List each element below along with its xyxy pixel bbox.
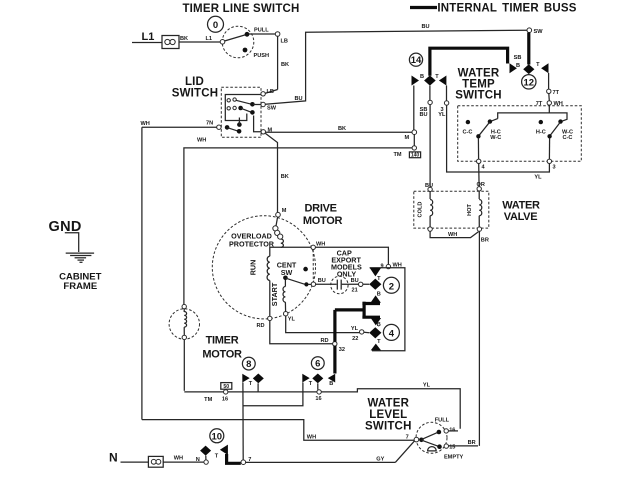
svg-text:EMPTY: EMPTY	[444, 455, 464, 461]
node N terminal	[204, 460, 208, 464]
water level EMPTY contact	[422, 440, 464, 460]
lid switch terminal M	[261, 128, 272, 135]
svg-text:INTERNAL TIMER BUSS: INTERNAL TIMER BUSS	[437, 3, 576, 15]
svg-text:N: N	[109, 451, 118, 465]
svg-text:MOTOR: MOTOR	[202, 349, 242, 361]
circled 8	[242, 357, 255, 370]
wire from 12 T down to 7T	[547, 73, 560, 96]
svg-text:MOTOR: MOTOR	[303, 215, 343, 227]
wire BU from lid SW up and right to timer buss	[265, 24, 527, 104]
circled 10	[210, 429, 224, 443]
svg-text:DRIVE: DRIVE	[305, 203, 337, 215]
svg-text:0: 0	[213, 20, 218, 31]
svg-text:SB: SB	[514, 55, 522, 61]
svg-text:W-C: W-C	[490, 135, 501, 141]
svg-text:10: 10	[212, 431, 223, 442]
label CABINET FRAME	[59, 271, 101, 292]
label CAP EXPORT MODELS ONLY	[331, 249, 362, 279]
svg-text:SWITCH: SWITCH	[455, 90, 502, 102]
svg-text:140: 140	[411, 153, 420, 159]
contact 8 diamond	[253, 374, 264, 392]
wire T6 to T8 rail	[243, 383, 303, 406]
svg-text:8: 8	[246, 359, 251, 370]
water level pivot node 7	[406, 435, 424, 443]
svg-text:BR: BR	[468, 440, 476, 446]
dashed wire WH export cap	[312, 250, 314, 282]
svg-text:7N: 7N	[206, 121, 213, 127]
svg-text:2: 2	[389, 281, 394, 292]
svg-text:4: 4	[482, 165, 486, 171]
water temp switch box	[458, 106, 582, 162]
wire from 14 T to 3 YL node	[438, 86, 449, 119]
water valve box	[414, 191, 489, 228]
overload protector	[229, 217, 283, 248]
temp switch left switch arm H-C W-C	[476, 119, 501, 140]
wire BK lid M to node M	[266, 126, 412, 132]
circled 6	[311, 357, 324, 370]
wire WH water valve bottom	[430, 231, 489, 243]
wire OR terminal 4 to water valve hot	[477, 164, 485, 192]
start winding	[270, 280, 286, 312]
svg-text:HOT: HOT	[467, 204, 473, 216]
svg-text:YL: YL	[351, 326, 359, 332]
contact 12 diamond	[523, 64, 534, 74]
svg-text:SW: SW	[267, 106, 277, 112]
title WATER TEMP SWITCH	[455, 68, 502, 102]
contact 6 B triangle	[328, 374, 335, 387]
svg-text:SW: SW	[534, 29, 544, 35]
drive motor M terminal	[276, 208, 287, 217]
timer line switch S0	[220, 26, 269, 59]
wire YL motor to terminal 22	[286, 316, 370, 342]
pressure dome	[428, 447, 437, 451]
svg-text:WH: WH	[174, 456, 183, 462]
svg-text:M: M	[405, 135, 410, 141]
svg-text:FULL: FULL	[435, 417, 450, 423]
bus wire TM 16 YL	[184, 383, 460, 431]
contact 2 diamond	[369, 279, 381, 290]
contact 6 diamond	[312, 374, 323, 390]
wire WH left rail down	[141, 127, 143, 419]
svg-text:TM: TM	[204, 397, 212, 403]
contact 2 T triangle	[370, 268, 381, 282]
wire heavy internal timer buss bend to contact 14	[430, 48, 508, 76]
svg-text:OR: OR	[477, 182, 485, 188]
wire WH lower rail to water level switch	[142, 420, 414, 441]
node SW on timer buss	[527, 28, 543, 35]
svg-text:T: T	[215, 454, 219, 460]
contact 12 T triangle	[536, 62, 548, 73]
wire BK lid M to drive motor	[265, 133, 288, 212]
contact 12 B triangle	[510, 55, 522, 73]
svg-text:WH: WH	[307, 434, 316, 440]
temp switch left contact C-C	[463, 120, 473, 135]
svg-text:6: 6	[315, 359, 320, 370]
svg-text:BK: BK	[281, 174, 289, 180]
svg-text:PULL: PULL	[254, 28, 269, 34]
ground GND	[49, 219, 95, 262]
svg-text:COLD: COLD	[418, 202, 424, 218]
title TIMER MOTOR	[202, 335, 242, 361]
wire heavy SW down to contact 12	[527, 33, 530, 65]
wire YL to temp switch common 3	[447, 105, 550, 180]
svg-text:RD: RD	[257, 323, 265, 329]
svg-text:SW: SW	[281, 268, 293, 277]
node RD motor	[257, 316, 272, 329]
wire T8 down to node 7	[242, 383, 244, 461]
wire TM to timer motor	[184, 148, 412, 305]
lid switch terminal LB	[261, 89, 274, 96]
svg-text:7: 7	[406, 435, 409, 441]
node YL motor	[284, 312, 296, 323]
wire PULL to LB	[249, 33, 275, 35]
wire BU down to water valve	[429, 105, 431, 188]
contact 4 T triangle	[371, 339, 381, 350]
svg-text:B: B	[377, 291, 381, 297]
svg-text:RD: RD	[320, 338, 328, 344]
svg-text:START: START	[270, 282, 279, 306]
temp switch right contact H-C	[536, 120, 546, 135]
svg-text:YL: YL	[438, 112, 446, 118]
circled 14	[409, 53, 422, 66]
water level switch shell	[416, 422, 447, 453]
svg-text:TIMER: TIMER	[206, 335, 239, 347]
svg-text:M: M	[282, 208, 287, 214]
svg-text:WH: WH	[197, 138, 206, 144]
wire BK down to lid switch LB	[265, 36, 289, 93]
svg-text:BK: BK	[281, 62, 289, 68]
wire WH from 7N to left rail	[141, 121, 217, 144]
timer motor TM	[169, 304, 199, 339]
wire from 14 B down to node M	[413, 86, 415, 131]
svg-text:T: T	[536, 62, 540, 68]
svg-text:L1: L1	[206, 36, 213, 42]
cent sw	[277, 261, 311, 287]
title DRIVE MOTOR	[303, 203, 343, 228]
heavy staircase B2 to B4	[362, 302, 380, 318]
capacitor C1	[311, 276, 369, 293]
drive motor shell	[212, 216, 315, 319]
svg-text:B: B	[329, 381, 333, 387]
lid switch terminal SW	[261, 102, 277, 111]
svg-text:WH: WH	[316, 242, 325, 248]
title WATER VALVE	[502, 200, 540, 224]
svg-text:WATER: WATER	[367, 397, 409, 409]
svg-text:VALVE: VALVE	[504, 211, 538, 223]
svg-text:T: T	[249, 381, 253, 387]
wire RD motor to node 32	[270, 321, 345, 353]
circled 2	[383, 277, 399, 293]
wire WH to contact 10	[163, 456, 204, 464]
svg-text:BU: BU	[425, 183, 433, 189]
svg-text:SWITCH: SWITCH	[365, 420, 412, 432]
svg-text:3: 3	[553, 164, 556, 170]
svg-text:LB: LB	[281, 39, 288, 45]
svg-text:PROTECTOR: PROTECTOR	[229, 239, 275, 248]
contact 14 T triangle	[435, 74, 446, 86]
drive motor terminal box	[270, 247, 389, 316]
lid switch internal wiring	[225, 95, 261, 134]
node 7T WH	[536, 94, 563, 108]
svg-text:YL: YL	[534, 175, 542, 181]
contact 10 diamond	[200, 446, 211, 460]
connector at N	[148, 456, 163, 467]
svg-text:B: B	[420, 74, 424, 80]
water valve cold solenoid	[418, 192, 433, 232]
svg-text:BK: BK	[338, 126, 346, 132]
node TM 16 boxed 50	[204, 383, 232, 403]
svg-text:L1: L1	[142, 31, 155, 43]
svg-text:WH: WH	[141, 121, 150, 127]
svg-text:TM: TM	[394, 152, 402, 158]
node 16 under 6	[315, 390, 321, 402]
heavy wire T10 to node 7	[227, 454, 241, 463]
svg-text:4: 4	[389, 328, 395, 339]
node WH on motor box	[311, 242, 325, 250]
heavy wire to node 32	[335, 310, 363, 374]
wire GY to water level switch	[246, 441, 415, 463]
svg-text:9: 9	[380, 264, 383, 270]
svg-text:12: 12	[524, 77, 535, 88]
svg-text:15: 15	[449, 444, 455, 450]
contact 4 diamond	[369, 327, 381, 338]
node M	[405, 130, 417, 141]
svg-text:LB: LB	[267, 89, 274, 95]
svg-text:BU: BU	[351, 278, 359, 284]
svg-text:22: 22	[352, 336, 358, 342]
node TM 140	[394, 135, 421, 159]
title WATER LEVEL SWITCH	[365, 397, 412, 432]
circled 4	[383, 324, 399, 340]
svg-text:YL: YL	[288, 317, 296, 323]
svg-text:B: B	[516, 63, 520, 69]
circled 12	[522, 75, 536, 89]
temp switch internal bus	[491, 105, 567, 121]
svg-text:TIMER LINE SWITCH: TIMER LINE SWITCH	[182, 3, 299, 15]
svg-text:T: T	[377, 339, 381, 345]
svg-text:WATER: WATER	[502, 200, 540, 212]
svg-text:GY: GY	[376, 456, 384, 462]
svg-text:C-C: C-C	[563, 135, 573, 141]
contact 4 B triangle	[371, 318, 381, 328]
title LID SWITCH	[172, 76, 219, 100]
contact 10 T triangle	[215, 445, 228, 460]
run winding	[249, 256, 270, 280]
svg-text:C-C: C-C	[463, 129, 473, 135]
svg-text:16: 16	[449, 427, 455, 433]
contact 14 B triangle	[412, 74, 425, 86]
lid switch box	[221, 87, 261, 137]
svg-text:32: 32	[339, 347, 345, 353]
contact 14 diamond	[424, 75, 436, 85]
svg-text:N: N	[196, 457, 200, 463]
wire L1 lead	[132, 42, 162, 44]
svg-text:16: 16	[315, 396, 321, 402]
svg-text:T: T	[435, 74, 439, 80]
water level FULL contact	[422, 417, 456, 439]
svg-text:14: 14	[411, 55, 422, 66]
svg-text:7T: 7T	[553, 90, 560, 96]
svg-text:16: 16	[222, 396, 228, 402]
svg-text:YL: YL	[423, 383, 431, 389]
svg-text:BU: BU	[318, 278, 326, 284]
lid switch terminal 7N	[206, 121, 221, 130]
svg-text:21: 21	[351, 287, 357, 293]
svg-text:BU: BU	[295, 96, 303, 102]
wire BR down right side	[478, 231, 480, 446]
contact 2 B triangle	[371, 291, 381, 302]
wire BR to empty	[449, 440, 479, 446]
node 7	[241, 457, 251, 465]
svg-text:T: T	[309, 381, 313, 387]
svg-text:WH: WH	[448, 232, 457, 238]
node LB	[275, 32, 288, 45]
svg-text:H-C: H-C	[536, 129, 546, 135]
svg-text:BU: BU	[422, 24, 430, 30]
wire BK to timer line switch	[180, 36, 221, 42]
circled 0	[208, 16, 224, 32]
contact 8 T triangle	[242, 374, 252, 388]
legend INTERNAL TIMER BUSS	[410, 3, 577, 15]
svg-text:BK: BK	[180, 36, 188, 42]
svg-text:PUSH: PUSH	[254, 53, 270, 59]
svg-text:RUN: RUN	[249, 260, 258, 276]
svg-text:50: 50	[223, 384, 229, 390]
svg-text:SWITCH: SWITCH	[172, 88, 219, 100]
svg-text:FRAME: FRAME	[63, 281, 97, 292]
svg-text:B: B	[377, 322, 381, 328]
contact block 2/4 outline	[370, 268, 405, 351]
node 9 WH	[380, 262, 401, 269]
temp switch right switch arm W-C C-C	[547, 119, 573, 140]
svg-text:BR: BR	[481, 238, 489, 244]
svg-text:BU: BU	[419, 112, 427, 118]
svg-text:LEVEL: LEVEL	[369, 409, 407, 421]
connector at L1	[162, 36, 179, 49]
wire from 14 diamond to SB BU node	[419, 86, 432, 118]
contact 6 T triangle	[302, 374, 312, 388]
temp switch terminal 4	[477, 139, 486, 171]
temp switch terminal 3	[547, 139, 555, 171]
svg-text:LID: LID	[185, 76, 204, 88]
wire timer motor to bus	[183, 340, 185, 391]
wire N lead	[121, 461, 149, 463]
water valve hot solenoid	[467, 191, 482, 231]
node BU water valve	[425, 183, 433, 192]
